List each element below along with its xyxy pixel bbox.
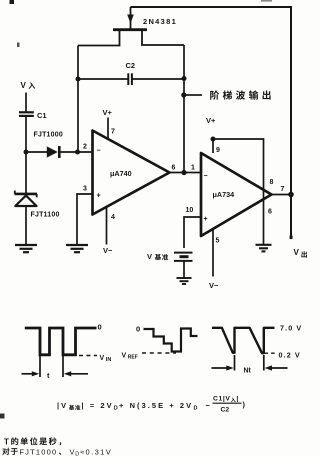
wire: pin3 stub <box>77 194 93 245</box>
svg-text:2N4381: 2N4381 <box>143 17 177 26</box>
svg-text:0.2 V: 0.2 V <box>279 351 301 360</box>
dashed level V_REF <box>142 352 176 354</box>
dashed level 0.2V <box>265 352 278 354</box>
svg-text:V: V <box>147 252 152 261</box>
svg-text:0: 0 <box>98 323 102 332</box>
gate lead <box>130 7 132 29</box>
dimension: Nt <box>212 355 288 371</box>
label V_IN <box>100 355 112 363</box>
svg-text:μA734: μA734 <box>213 190 235 199</box>
wire: node A to diode <box>26 151 47 153</box>
svg-text:V: V <box>294 248 300 257</box>
waveform W3: sawtooth output <box>212 328 275 353</box>
svg-text:C1: C1 <box>37 111 47 120</box>
wire: pin5 V- of U2 <box>212 229 214 277</box>
node: output junction x=184 <box>181 170 186 175</box>
dimension: period t <box>22 356 89 377</box>
svg-text:μA740: μA740 <box>110 169 132 178</box>
label Vin (V入) <box>21 81 36 90</box>
svg-text:V−: V− <box>103 246 113 255</box>
wire: U2 output <box>272 194 292 196</box>
wire: Vin down to C1 <box>25 93 27 112</box>
wire: right vertical x=184 <box>183 45 185 172</box>
node: staircase output tap <box>181 92 186 97</box>
svg-text:Nt: Nt <box>244 368 252 375</box>
svg-text:REF: REF <box>128 354 138 360</box>
svg-text:2: 2 <box>83 144 87 151</box>
label V_REF <box>122 353 138 361</box>
svg-text:|V: |V <box>57 401 68 410</box>
svg-text:7: 7 <box>111 129 115 136</box>
op-amp U2 uA734 <box>201 153 272 236</box>
artifact: left margin speck <box>17 43 20 48</box>
node: C2 left junction <box>76 77 81 82</box>
svg-text:V: V <box>122 353 127 360</box>
svg-text:T: T <box>4 437 9 446</box>
ground: below zener <box>15 245 37 252</box>
svg-text:−: − <box>97 148 101 155</box>
svg-text:D: D <box>114 406 118 412</box>
svg-text:4: 4 <box>111 214 115 221</box>
waveform W1: input square wave <box>25 328 97 355</box>
svg-text:+: + <box>97 193 101 200</box>
node: V+ junction U2 <box>211 137 216 142</box>
node: input node A <box>24 150 29 155</box>
svg-text:1: 1 <box>191 165 195 172</box>
svg-text:IN: IN <box>106 357 112 363</box>
wire: U1 output to U2 input <box>170 172 202 174</box>
svg-text:+: + <box>204 216 208 223</box>
svg-text:FJT1100: FJT1100 <box>31 212 60 219</box>
ground: below battery <box>177 278 192 284</box>
note line 2: FJT1000 Vd <box>2 447 112 457</box>
wire: left vertical x=78 <box>77 46 79 153</box>
channel bar <box>113 28 147 31</box>
wire: V+ over to pin8 and down to ground <box>213 139 264 245</box>
wire: pin7 V+ <box>107 118 109 140</box>
wire: output rail tip <box>290 236 293 240</box>
artifact: top edge smudge <box>261 0 272 2</box>
svg-text:8: 8 <box>270 179 274 186</box>
transistor Q1 2N4381 (JFET) <box>78 7 184 46</box>
formula <box>57 396 246 414</box>
wire: diode to pin2 node <box>60 151 93 153</box>
zener diode FJT1100 <box>15 152 38 245</box>
wire: pin10 stub to reference <box>184 217 201 248</box>
svg-text:V+: V+ <box>103 108 113 117</box>
wire: C1 down to input node <box>25 117 27 153</box>
node: pin2 junction <box>75 150 80 155</box>
artifact: top-left ink blob <box>10 0 15 4</box>
svg-text:≈0.31V: ≈0.31V <box>80 447 112 456</box>
label 阶梯波输出 <box>210 90 270 99</box>
svg-text:C1|V: C1|V <box>213 396 231 403</box>
svg-text:V: V <box>70 447 75 456</box>
svg-text:V+: V+ <box>206 116 216 125</box>
svg-text:| = 2V: | = 2V <box>82 401 114 410</box>
svg-text:9: 9 <box>216 147 220 154</box>
wire: pin4 V- <box>106 207 108 245</box>
wire: top feedback from gate to output rail <box>131 7 292 239</box>
label V出 <box>294 248 307 258</box>
op-amp U1 uA740 <box>93 131 170 215</box>
wire: staircase output tick <box>186 94 202 96</box>
node: output rail junction <box>288 192 294 198</box>
svg-text:−: − <box>204 173 208 180</box>
drain lead <box>78 31 120 46</box>
svg-text:C2: C2 <box>221 407 230 414</box>
svg-text:V: V <box>21 81 27 90</box>
svg-text:C2: C2 <box>126 61 136 70</box>
diode D1 FJT1000 <box>47 146 60 158</box>
capacitor C2 <box>78 73 184 85</box>
ground: U2 right <box>256 245 272 252</box>
svg-text:6: 6 <box>172 165 176 172</box>
node: C2 right junction <box>182 76 187 81</box>
label V基准 <box>147 252 168 261</box>
waveform W2: staircase <box>144 329 198 352</box>
battery V reference <box>174 253 193 278</box>
source lead <box>142 31 184 45</box>
capacitor C1 <box>19 112 34 116</box>
svg-text:FJT1000: FJT1000 <box>19 447 57 456</box>
svg-text:6: 6 <box>268 209 272 216</box>
note line 1: T的单位是秒 <box>4 437 61 446</box>
svg-text:0: 0 <box>136 325 140 334</box>
svg-text:7.0 V: 7.0 V <box>280 324 302 333</box>
svg-text:5: 5 <box>216 238 220 245</box>
svg-text:+ N(3.5E + 2V: + N(3.5E + 2V <box>119 401 193 410</box>
wire: pin9 V+ of U2 <box>212 139 214 153</box>
dashed level V_IN <box>79 355 97 357</box>
svg-text:FJT1000: FJT1000 <box>34 132 63 139</box>
svg-text:D: D <box>75 452 79 457</box>
svg-text:|: | <box>236 396 238 403</box>
artifact: left edge mark <box>0 414 5 419</box>
svg-text:3: 3 <box>83 186 87 193</box>
ground: U1 pin3 <box>66 245 88 252</box>
svg-text:V−: V− <box>209 281 219 290</box>
svg-text:10: 10 <box>186 207 194 214</box>
svg-text:7: 7 <box>281 186 285 193</box>
svg-text:−: − <box>206 401 211 410</box>
svg-text:D: D <box>194 406 198 412</box>
svg-text:V: V <box>100 355 105 362</box>
